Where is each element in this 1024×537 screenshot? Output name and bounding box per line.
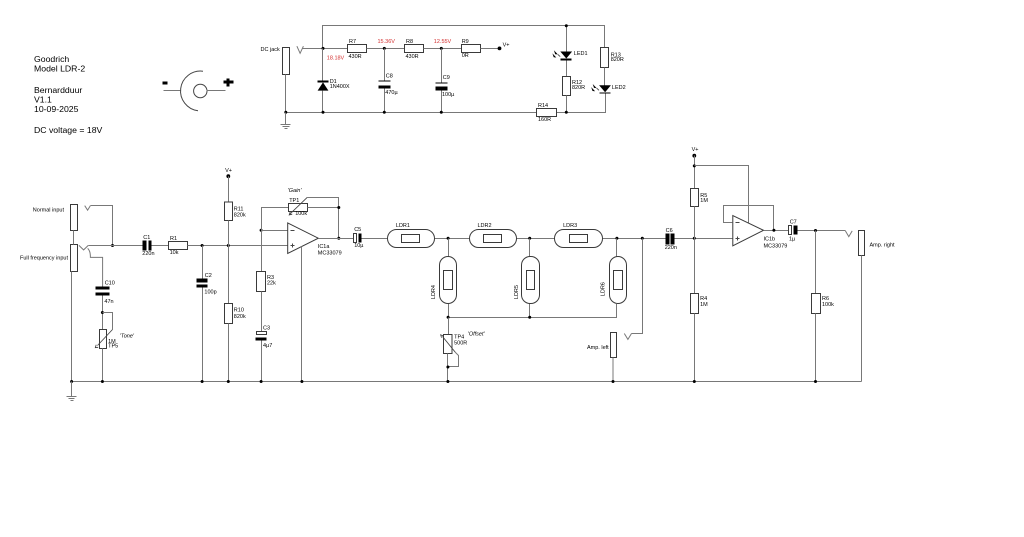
svg-text:Normal input: Normal input bbox=[33, 207, 65, 213]
svg-text:100p: 100p bbox=[204, 290, 216, 296]
svg-text:C3: C3 bbox=[263, 325, 270, 331]
node junction feedback/output bbox=[772, 229, 775, 232]
resistor R10 bbox=[225, 246, 246, 382]
wire jack sleeve line bbox=[73, 231, 75, 245]
svg-text:LDR3: LDR3 bbox=[563, 223, 577, 229]
svg-text:C6: C6 bbox=[666, 228, 673, 234]
svg-text:C8: C8 bbox=[386, 73, 393, 79]
svg-text:C5: C5 bbox=[354, 227, 361, 233]
svg-text:MC33079: MC33079 bbox=[318, 251, 342, 257]
LDR5 bbox=[514, 239, 540, 318]
svg-text:160R: 160R bbox=[538, 117, 551, 123]
svg-text:R7: R7 bbox=[349, 39, 356, 45]
wire ground rail bbox=[72, 381, 862, 383]
svg-text:V+: V+ bbox=[503, 43, 510, 49]
svg-text:C10: C10 bbox=[105, 281, 115, 287]
node junction bias bbox=[227, 244, 230, 247]
svg-text:1N400X: 1N400X bbox=[330, 84, 350, 90]
svg-text:500R: 500R bbox=[454, 340, 467, 346]
net port V (amp right) bbox=[845, 231, 852, 237]
svg-text:0R: 0R bbox=[462, 53, 469, 59]
svg-text:820R: 820R bbox=[572, 85, 585, 91]
capacitor C5 bbox=[354, 227, 365, 249]
svg-text:C9: C9 bbox=[443, 75, 450, 81]
svg-text:15.36V: 15.36V bbox=[378, 39, 396, 45]
svg-text:C1: C1 bbox=[143, 235, 150, 241]
wire TP1 right terminal bbox=[308, 207, 339, 209]
node junction C9 top bbox=[440, 47, 443, 50]
resistor R8 bbox=[405, 39, 424, 60]
jack J5 Amp. right bbox=[859, 231, 896, 382]
ground (power section) bbox=[281, 113, 291, 129]
svg-text:'Gain': 'Gain' bbox=[288, 188, 303, 194]
trimpot TP1 'Gain' bbox=[288, 188, 308, 217]
node junction C10 / TP5 wiper bbox=[101, 311, 104, 314]
wire DC in to R7 bbox=[303, 48, 348, 50]
capacitor C1 bbox=[142, 235, 154, 257]
wire V+ to IC1b supply pin bbox=[695, 166, 749, 224]
svg-text:V+: V+ bbox=[225, 168, 232, 174]
svg-text:4µ7: 4µ7 bbox=[263, 343, 272, 349]
wire amp left tap down bbox=[632, 239, 643, 334]
wire normal input to main node bbox=[91, 206, 113, 246]
svg-text:470µ: 470µ bbox=[385, 90, 398, 96]
diode D1 bbox=[318, 49, 350, 113]
svg-text:MC33079: MC33079 bbox=[764, 244, 788, 250]
svg-text:'Tone': 'Tone' bbox=[120, 334, 135, 340]
svg-text:DC voltage = 18V: DC voltage = 18V bbox=[34, 125, 103, 135]
title text block bbox=[34, 54, 103, 135]
node junction opamp output bbox=[337, 237, 340, 240]
resistor R14 bbox=[537, 103, 557, 123]
node junction amp left tap bbox=[641, 237, 644, 240]
svg-text:R10: R10 bbox=[234, 308, 244, 314]
svg-text:22k: 22k bbox=[267, 280, 276, 286]
node junction V+ branch bbox=[693, 164, 696, 167]
wire R7 to R8 bbox=[367, 48, 405, 50]
net port V (amp left) bbox=[624, 334, 631, 340]
ground (main) bbox=[67, 382, 77, 401]
net port V (full freq input) bbox=[79, 245, 88, 250]
svg-text:TP4: TP4 bbox=[454, 334, 464, 340]
resistor R6 bbox=[812, 231, 835, 382]
capacitor C8 bbox=[379, 49, 399, 113]
LDR6 bbox=[600, 239, 626, 318]
node junction LDR2/LDR5 bbox=[528, 237, 531, 240]
svg-text:10k: 10k bbox=[170, 250, 179, 256]
svg-text:LDR5: LDR5 bbox=[514, 285, 520, 299]
svg-text:IC1b: IC1b bbox=[764, 237, 776, 243]
jack J2 Normal input bbox=[33, 205, 78, 231]
DC jack polarity symbol bbox=[163, 71, 234, 111]
wire IC1a ground pin bbox=[301, 247, 303, 382]
wire TP1 wiper loop bbox=[307, 198, 338, 239]
svg-text:430R: 430R bbox=[349, 54, 362, 60]
svg-text:100µ: 100µ bbox=[442, 92, 455, 98]
node junction R6 bbox=[814, 229, 817, 232]
jack J3 Full frequency input bbox=[20, 245, 78, 272]
node junction R5/R4 bbox=[693, 237, 696, 240]
trimpot TP5 'Tone' bbox=[95, 313, 135, 382]
wire R1 to opamp + input bbox=[188, 245, 288, 247]
node junction feedback bbox=[260, 229, 263, 232]
wire IC1b feedback loop bbox=[724, 206, 774, 231]
jack J4 Amp. left bbox=[587, 333, 617, 382]
node junction LDR1/LDR4 bbox=[447, 237, 450, 240]
svg-text:C2: C2 bbox=[205, 273, 212, 279]
node junctions on power bottom rail bbox=[284, 111, 287, 114]
net V+ (supply out) bbox=[498, 43, 510, 51]
svg-text:V+: V+ bbox=[692, 147, 699, 153]
capacitor C3 bbox=[256, 325, 273, 381]
net port V (DC in) bbox=[297, 46, 304, 53]
svg-text:12.55V: 12.55V bbox=[434, 39, 452, 45]
wire input ring to C10 bbox=[88, 248, 103, 286]
svg-text:430R: 430R bbox=[406, 54, 419, 60]
LED LED1 bbox=[552, 26, 587, 77]
node junction C8 top bbox=[383, 47, 386, 50]
svg-text:R8: R8 bbox=[406, 39, 413, 45]
svg-text:C7: C7 bbox=[790, 219, 797, 225]
wire C6 to IC1b + input bbox=[675, 238, 733, 240]
DC jack connector J1 bbox=[261, 47, 290, 75]
svg-text:Model LDR-2: Model LDR-2 bbox=[34, 63, 85, 73]
resistor R5 bbox=[691, 189, 709, 239]
LDR4 bbox=[431, 239, 456, 318]
resistor R12 bbox=[563, 77, 586, 113]
wire full freq input to C1 bbox=[89, 245, 143, 247]
net V+ (IC1b) bbox=[692, 147, 699, 158]
svg-text:LDR6: LDR6 bbox=[600, 282, 606, 296]
capacitor C6 bbox=[665, 228, 677, 251]
svg-text:100k: 100k bbox=[822, 302, 834, 308]
LED LED2 bbox=[591, 84, 625, 113]
net port V (normal input) bbox=[85, 206, 91, 211]
resistor R13 bbox=[601, 48, 624, 86]
node junction TP1 right bbox=[337, 206, 340, 209]
LDR1 bbox=[388, 223, 435, 248]
svg-text:TP1: TP1 bbox=[289, 198, 299, 204]
resistor R3 bbox=[257, 231, 277, 332]
node junction LDR3/LDR6 bbox=[615, 237, 618, 240]
op-amp IC1a bbox=[288, 223, 342, 257]
net V+ (R11 top) bbox=[225, 168, 232, 178]
svg-text:820R: 820R bbox=[611, 57, 624, 63]
svg-text:820k: 820k bbox=[234, 213, 246, 219]
node junction LED1 top bbox=[565, 24, 568, 27]
node junction TP4 wiper bbox=[446, 366, 449, 369]
wire IC1a output to C5 bbox=[319, 238, 354, 240]
svg-text:'Offset': 'Offset' bbox=[468, 332, 486, 338]
resistor R7 bbox=[348, 39, 367, 60]
op-amp IC1b bbox=[733, 216, 788, 250]
svg-text:R14: R14 bbox=[538, 103, 548, 109]
svg-text:R9: R9 bbox=[462, 39, 469, 45]
wire C1 to R1 bbox=[152, 245, 169, 247]
node junction offset bus LDR4 bbox=[447, 316, 450, 319]
svg-text:Amp. left: Amp. left bbox=[587, 345, 609, 351]
svg-text:LDR2: LDR2 bbox=[478, 223, 492, 229]
svg-text:47n: 47n bbox=[104, 299, 113, 305]
svg-text:TP5: TP5 bbox=[108, 344, 118, 350]
resistor R4 bbox=[691, 239, 709, 382]
wire IC1b output to C7 bbox=[764, 230, 789, 232]
resistor R11 bbox=[225, 176, 246, 245]
wire jack sleeve to ground rail bbox=[285, 75, 287, 113]
svg-text:R1: R1 bbox=[170, 236, 177, 242]
node junction C2 bbox=[201, 244, 204, 247]
wire V+ stub bbox=[694, 156, 696, 189]
wire top rail bbox=[323, 26, 605, 49]
svg-text:18.18V: 18.18V bbox=[327, 55, 345, 61]
capacitor C2 bbox=[197, 246, 217, 382]
svg-text:DC jack: DC jack bbox=[261, 47, 281, 53]
wire R8 to R9 bbox=[424, 48, 462, 50]
capacitor C7 bbox=[789, 219, 798, 242]
svg-text:Amp. right: Amp. right bbox=[870, 242, 896, 248]
svg-text:IC1a: IC1a bbox=[318, 244, 331, 250]
svg-text:1M: 1M bbox=[700, 302, 708, 308]
wire R9 to V+ bbox=[481, 48, 500, 50]
node junction offset bus LDR5 bbox=[528, 316, 531, 319]
node junctions on ground rail bbox=[70, 380, 73, 383]
svg-text:LDR4: LDR4 bbox=[431, 285, 437, 299]
svg-text:10µ: 10µ bbox=[354, 243, 364, 249]
svg-text:LDR1: LDR1 bbox=[396, 223, 410, 229]
svg-text:820k: 820k bbox=[234, 314, 246, 320]
wire feedback node up to TP1 left bbox=[262, 208, 289, 231]
wire offset bus bbox=[449, 304, 617, 318]
svg-text:LED2: LED2 bbox=[612, 85, 626, 91]
svg-text:Full frequency input: Full frequency input bbox=[20, 255, 68, 261]
LDR2 bbox=[470, 223, 517, 248]
svg-text:100k: 100k bbox=[295, 211, 307, 217]
svg-text:V1.1: V1.1 bbox=[34, 94, 52, 104]
capacitor C9 bbox=[436, 49, 456, 113]
LDR3 bbox=[555, 223, 603, 248]
svg-text:220n: 220n bbox=[665, 245, 677, 251]
svg-text:1µ: 1µ bbox=[789, 237, 796, 243]
svg-text:10-09-2025: 10-09-2025 bbox=[34, 104, 79, 114]
svg-text:220n: 220n bbox=[142, 251, 154, 257]
node junction at 323,48.4 bbox=[322, 47, 325, 50]
resistor R1 bbox=[169, 236, 188, 256]
wire C7 to amp right bbox=[798, 230, 846, 232]
node junction input bbox=[111, 244, 114, 247]
wire feedback node to - input bbox=[262, 230, 288, 232]
resistor R9 bbox=[462, 39, 481, 59]
svg-text:LED1: LED1 bbox=[574, 51, 588, 57]
wire power bottom rail bbox=[286, 112, 537, 114]
trimpot TP4 'Offset' bbox=[441, 318, 486, 382]
capacitor C10 bbox=[96, 281, 115, 330]
wire C5 to LDR chain bbox=[362, 238, 666, 240]
svg-text:1M: 1M bbox=[700, 198, 708, 204]
